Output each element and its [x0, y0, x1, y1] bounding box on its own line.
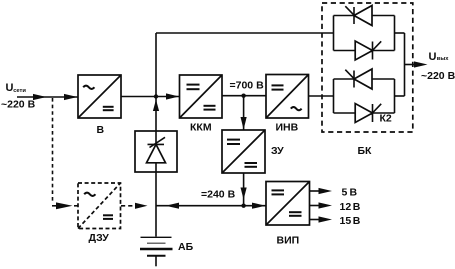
svg-text:вых: вых — [437, 56, 450, 62]
svg-text:~220 В: ~220 В — [421, 70, 455, 82]
svg-text:К2: К2 — [380, 113, 392, 125]
svg-text:ВИП: ВИП — [277, 235, 300, 247]
svg-text:ДЗУ: ДЗУ — [89, 232, 110, 244]
arrowhead 15V — [319, 216, 333, 222]
wire VIP output 15V — [310, 219, 321, 221]
svg-text:БК: БК — [358, 145, 373, 157]
wire dashed DZU output — [121, 205, 133, 207]
wire output Uvyh — [405, 64, 419, 66]
svg-text:15: 15 — [340, 215, 352, 227]
wire K2 output — [395, 95, 405, 97]
wire VIP output 12V — [310, 205, 321, 207]
svg-text:ЗУ: ЗУ — [271, 145, 284, 157]
wire rectifier B to KKM — [121, 96, 179, 98]
junction node at x156 — [154, 94, 158, 98]
svg-text:=240 В: =240 В — [201, 189, 236, 201]
node Uvyh label — [429, 51, 450, 63]
arrowhead 12V — [319, 202, 333, 208]
wire KKM to INV — [222, 95, 266, 97]
arrowhead DZU output — [135, 203, 148, 209]
thyristor pair K1 loop — [334, 6, 395, 61]
wire ZU down to 240V bus — [243, 173, 245, 206]
wire thyristor box to junction — [155, 97, 157, 132]
arrowhead dashed into DZU — [56, 202, 73, 209]
arrowhead into rectifier B — [64, 94, 78, 100]
svg-text:U: U — [429, 51, 437, 63]
arrowhead toward battery — [166, 203, 180, 209]
svg-text:=700 В: =700 В — [230, 80, 265, 92]
thyristor VS1 box — [135, 131, 177, 172]
standby charger DZU dashed — [78, 183, 121, 229]
wire 240V bus — [156, 205, 266, 207]
auxiliary converter VIP — [266, 182, 310, 226]
svg-text:В: В — [353, 201, 361, 213]
wire bypass top line to K1 — [156, 32, 334, 34]
svg-text:В: В — [97, 124, 105, 136]
bypass switch block BK dashed — [322, 3, 413, 132]
arrowhead 5V — [319, 188, 333, 194]
wire K1 output — [395, 32, 405, 34]
svg-text:ККМ: ККМ — [190, 122, 212, 134]
PFC converter KKM — [180, 75, 223, 118]
battery AB — [140, 237, 173, 266]
junction node 240V bus — [241, 204, 245, 208]
rectifier B — [78, 75, 121, 118]
charger ZU — [222, 130, 265, 173]
arrowhead up into junction — [153, 100, 159, 112]
wire riser from junction up to bypass line — [155, 33, 157, 97]
svg-text:5: 5 — [342, 187, 348, 199]
junction node 700V bus — [241, 94, 245, 98]
wire VIP output 5V — [310, 190, 321, 192]
wire output riser — [404, 33, 406, 96]
arrowhead ZU output down — [241, 188, 247, 200]
thyristor pair K2 loop — [334, 69, 395, 123]
svg-text:~220 В: ~220 В — [1, 99, 36, 111]
svg-text:АБ: АБ — [178, 241, 194, 253]
arrowhead into KKM — [166, 93, 179, 99]
arrowhead output — [414, 61, 428, 67]
svg-text:12: 12 — [340, 201, 352, 213]
wire dashed mains tap down — [52, 98, 54, 204]
wire thyristor box down to battery junction — [155, 172, 157, 237]
svg-text:сети: сети — [13, 88, 26, 94]
arrowhead into VIP — [252, 203, 266, 209]
inverter INV — [266, 75, 309, 119]
arrowhead input mains — [33, 94, 47, 100]
svg-text:В: В — [353, 215, 361, 227]
wire inverter to K2 — [309, 95, 334, 97]
arrowhead into ZU — [241, 117, 247, 130]
wire 700V bus down to charger ZU — [243, 96, 245, 130]
wire input mains to rectifier B — [17, 96, 78, 98]
svg-text:ИНВ: ИНВ — [276, 122, 299, 134]
node Useti label — [6, 82, 27, 94]
svg-text:В: В — [350, 187, 358, 199]
